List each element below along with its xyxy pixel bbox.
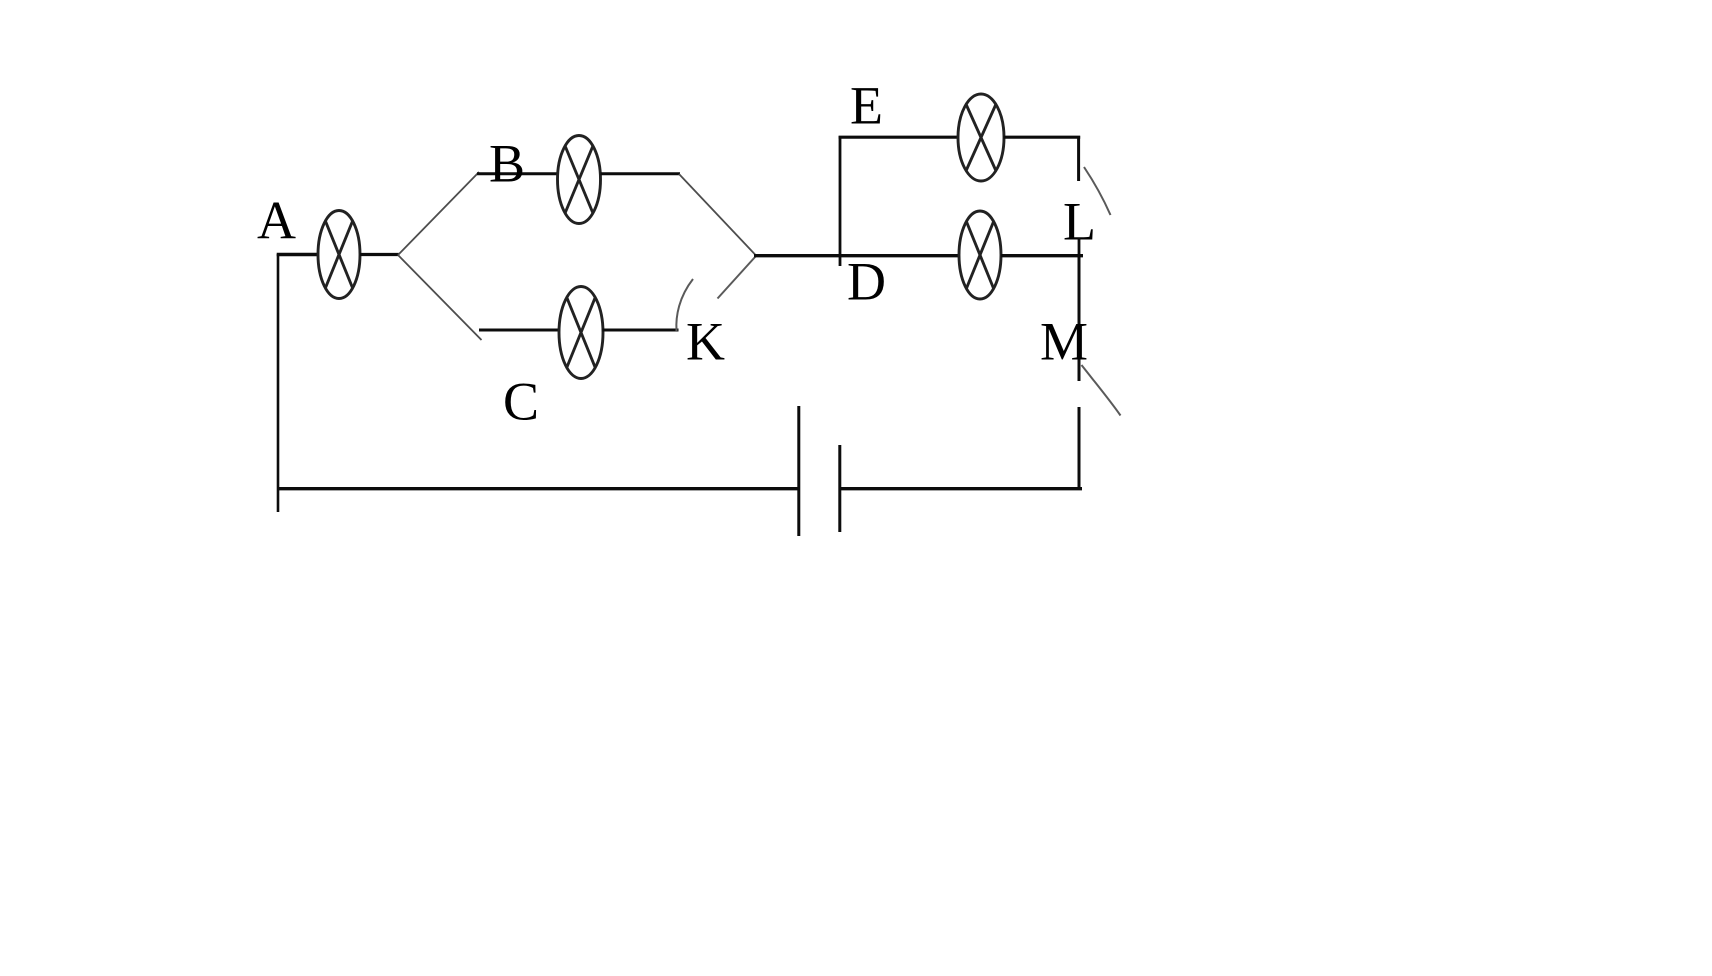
wire (398, 255, 482, 340)
svg-text:E: E (850, 76, 883, 136)
switch K (676, 257, 755, 332)
switch L (1084, 167, 1111, 215)
wire (277, 253, 319, 256)
wire (1078, 255, 1081, 381)
svg-text:B: B (489, 134, 525, 194)
wire (679, 174, 757, 256)
wire (479, 329, 560, 332)
svg-text:K: K (686, 312, 725, 372)
lamp D (959, 211, 1001, 299)
wire (839, 136, 959, 139)
lamp E (958, 94, 1004, 181)
wire (1077, 136, 1080, 181)
wire (360, 253, 399, 256)
wire (1001, 254, 1083, 257)
wire (477, 172, 559, 175)
svg-text:A: A (257, 191, 296, 251)
wire (839, 136, 842, 266)
wire (601, 172, 681, 175)
wire (278, 487, 798, 490)
svg-text:M: M (1040, 312, 1088, 372)
wire (754, 254, 960, 257)
svg-text:D: D (847, 252, 886, 312)
switch M (1082, 365, 1121, 416)
wire (398, 172, 479, 255)
switch M lower contact (1078, 407, 1081, 490)
battery (799, 406, 840, 536)
wire (840, 487, 1082, 490)
lamp A (318, 211, 360, 299)
wire (1004, 136, 1081, 139)
lamp B (558, 136, 601, 224)
lamp C (559, 287, 603, 379)
svg-text:C: C (503, 372, 539, 432)
wire (603, 329, 679, 332)
wire (277, 254, 280, 512)
switch L lower contact (1078, 238, 1081, 257)
